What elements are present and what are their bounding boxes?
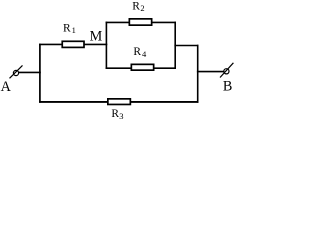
- wire: left vertical: [39, 44, 41, 103]
- svg-text:R: R: [111, 108, 119, 120]
- svg-text:M: M: [90, 28, 103, 44]
- wire: R2 branch horizontal: [106, 21, 176, 23]
- wire: right vertical joining R2 and R4: [174, 22, 176, 69]
- resistor R1: [62, 41, 84, 47]
- label R1: [63, 23, 76, 35]
- svg-text:2: 2: [140, 3, 144, 13]
- wire: R1 branch horizontal: [39, 43, 107, 45]
- wire: output right vertical: [197, 45, 199, 103]
- resistor R3: [108, 99, 131, 105]
- svg-text:4: 4: [142, 49, 147, 59]
- label R4: [133, 46, 147, 59]
- resistor R2: [129, 19, 151, 25]
- svg-text:R: R: [132, 1, 140, 13]
- wire: terminal A to left vertical: [19, 71, 41, 73]
- svg-text:3: 3: [119, 111, 123, 121]
- label R3: [111, 108, 123, 121]
- svg-text:B: B: [223, 78, 232, 94]
- svg-text:A: A: [1, 79, 12, 95]
- terminal B (circle with slash): [220, 63, 233, 78]
- terminal A (circle with slash): [10, 65, 23, 78]
- svg-text:1: 1: [72, 25, 76, 35]
- wire: R4 branch horizontal: [106, 67, 176, 69]
- label R2: [132, 1, 144, 14]
- svg-text:R: R: [63, 23, 71, 35]
- wire: M vertical (junction R1/R2/R4): [105, 22, 107, 69]
- wire: to terminal B: [197, 71, 224, 73]
- wire: middle horizontal to output vertical: [174, 45, 198, 47]
- wire: bottom horizontal (R3 branch): [39, 101, 198, 103]
- resistor R4: [131, 64, 153, 70]
- svg-text:R: R: [133, 46, 141, 58]
